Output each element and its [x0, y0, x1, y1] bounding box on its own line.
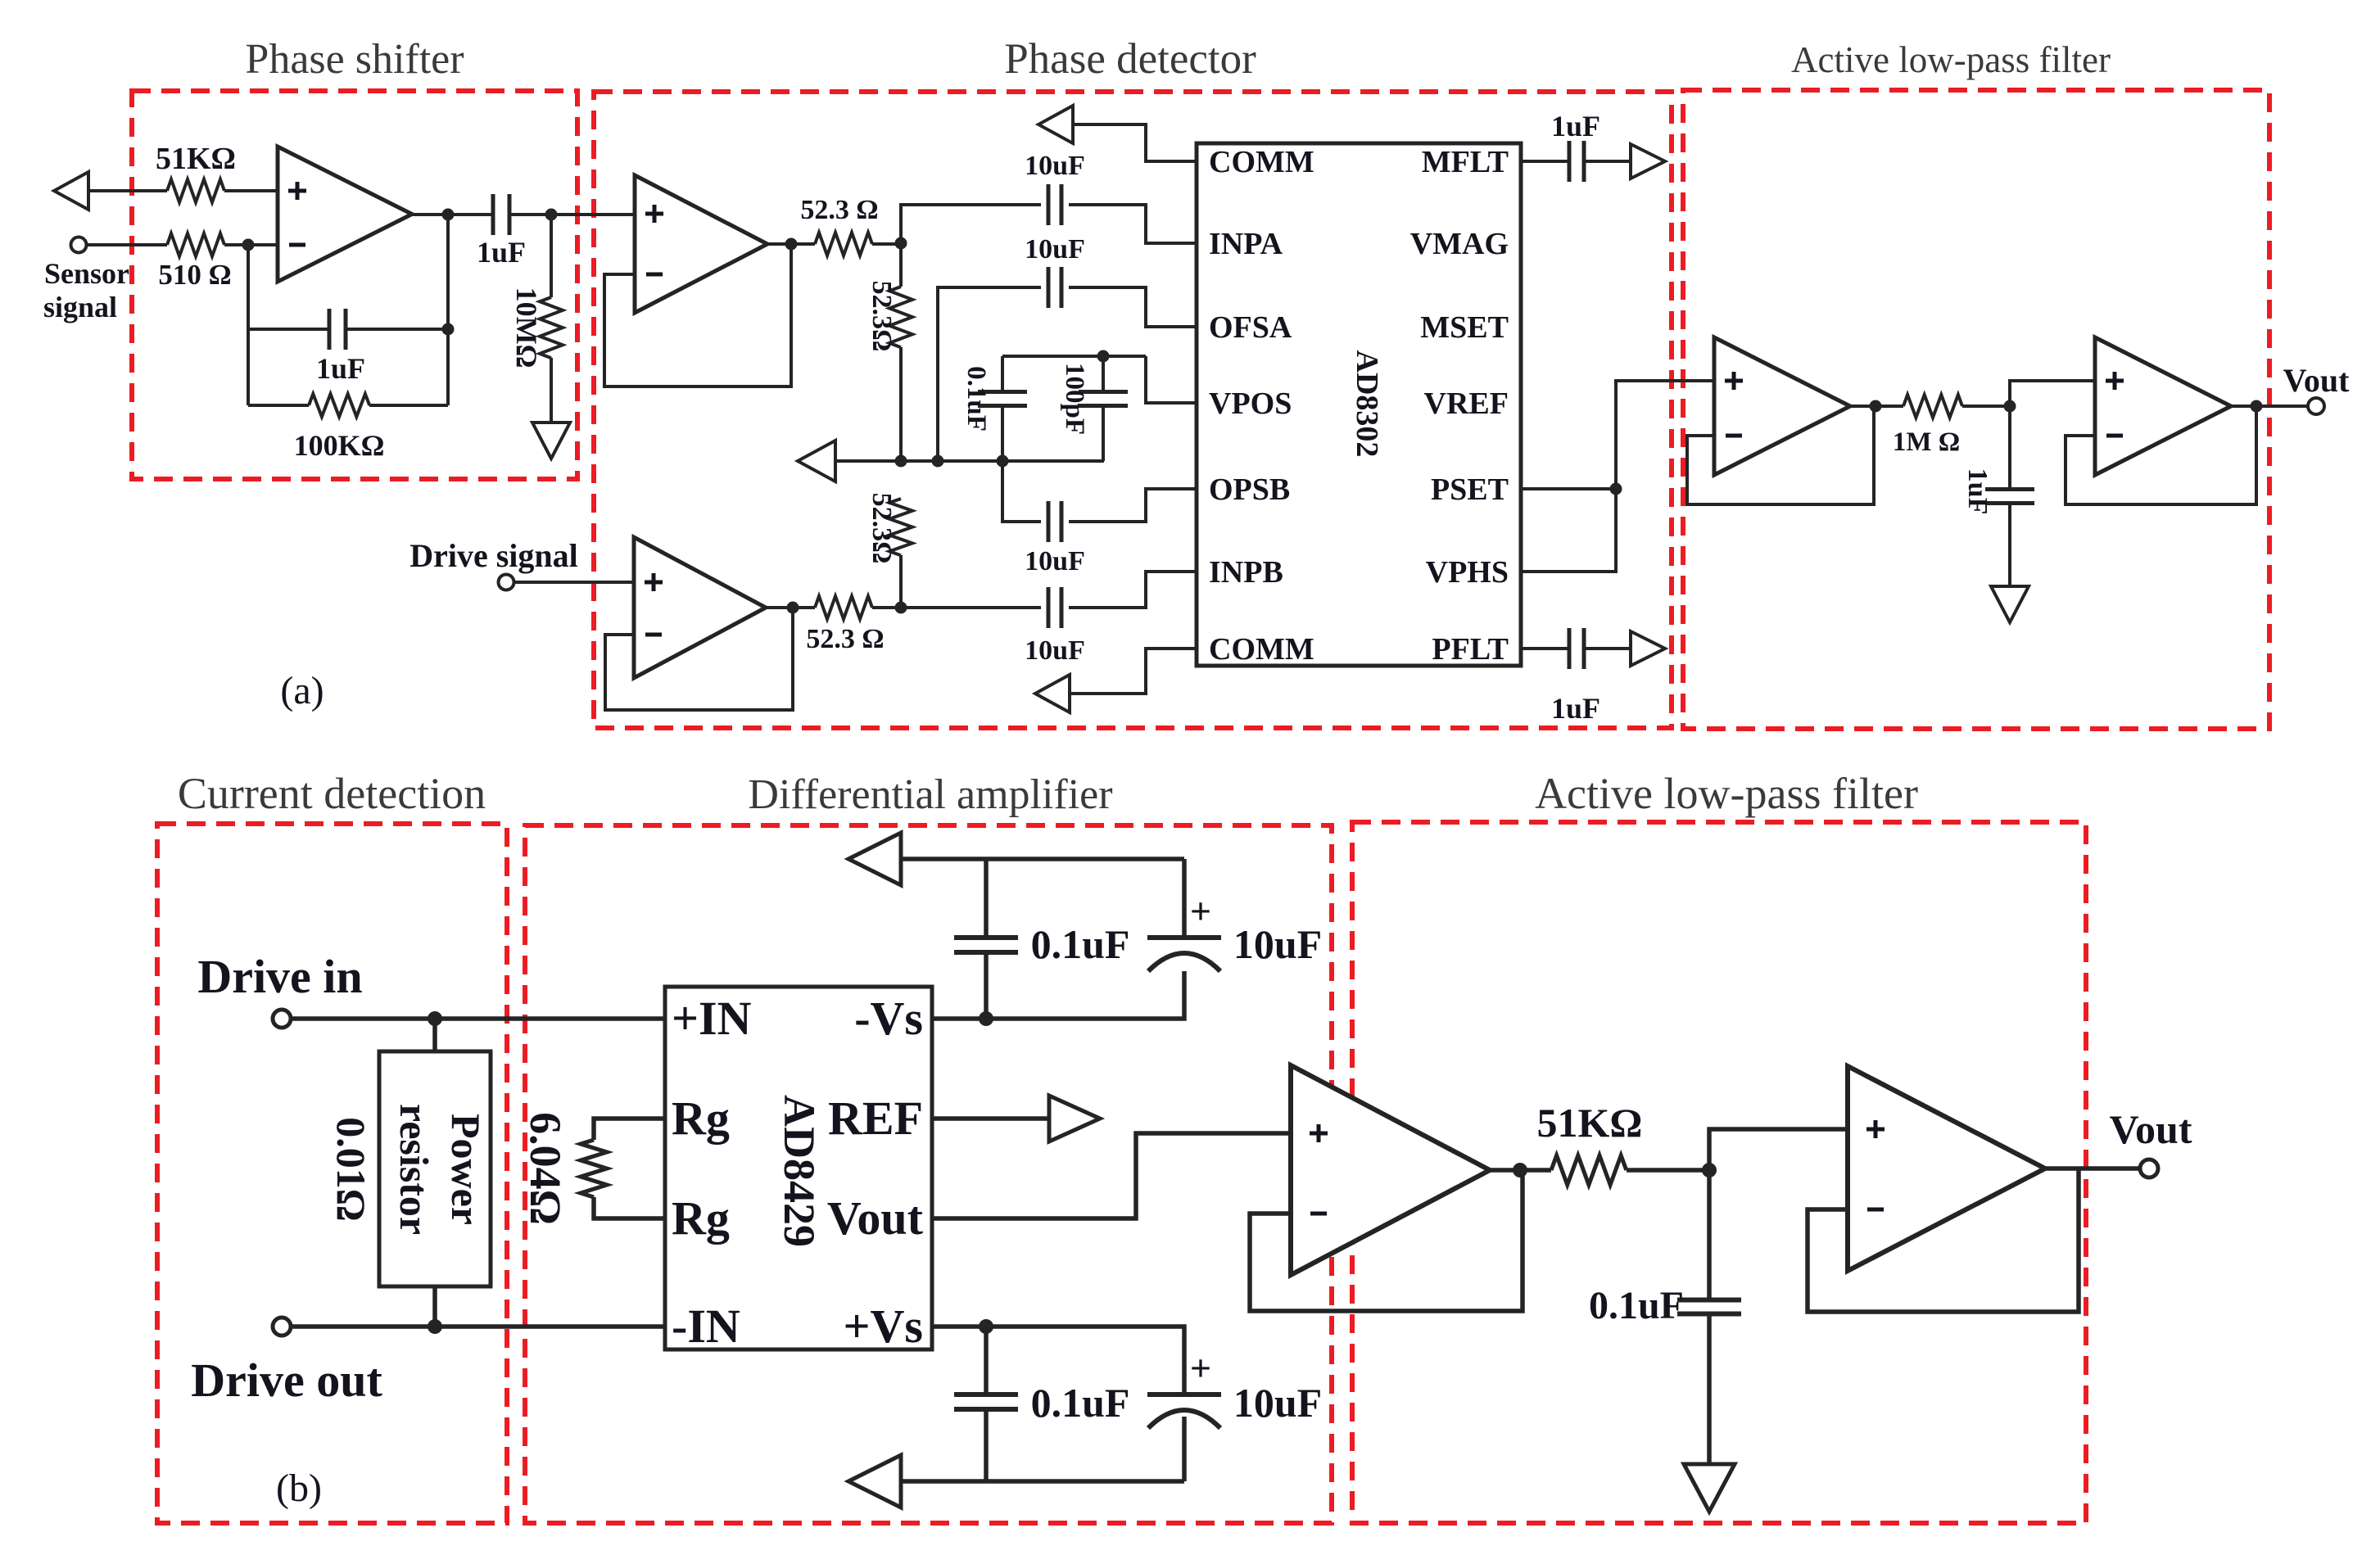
svg-text:51KΩ: 51KΩ — [156, 142, 236, 176]
terminal Vout (top) — [2308, 398, 2324, 414]
svg-text:52.3 Ω: 52.3 Ω — [806, 624, 884, 654]
svg-text:510 Ω: 510 Ω — [158, 259, 231, 291]
capacitor 0.1uF on -Vs — [984, 953, 989, 1019]
capacitor 1uF at MFLT — [1569, 141, 1584, 182]
svg-text:MSET: MSET — [1420, 310, 1509, 345]
wire top of power resistor — [432, 1019, 437, 1051]
svg-text:Vout: Vout — [2283, 362, 2350, 399]
resistor 51KO to U1 + — [167, 179, 224, 202]
capacitor 1uF series at U1 output — [493, 194, 509, 235]
op-amp U1 (phase shifter) — [278, 147, 412, 282]
svg-text:resistor: resistor — [391, 1104, 437, 1235]
svg-text:OFSA: OFSA — [1209, 310, 1292, 345]
dashed box: Active low-pass filter (top) — [1683, 90, 2269, 729]
capacitor 10uF polarized on -Vs — [1182, 859, 1187, 938]
node A vertical to INPA coupling — [901, 205, 1041, 243]
ground arrow (left) +Vs — [848, 1455, 901, 1507]
IC U3 AD8302 phase detector chip — [1197, 143, 1521, 666]
resistor 510O to U1 - — [167, 233, 224, 256]
wire U8 output — [1490, 1168, 1551, 1173]
wire to COMM top pin — [1073, 124, 1197, 161]
capacitor 10uF to OFSA — [938, 287, 1041, 461]
svg-text:0.1uF: 0.1uF — [962, 366, 991, 432]
wire U4 feedback loop — [605, 608, 793, 710]
svg-text:10uF: 10uF — [1025, 151, 1085, 181]
svg-text:1uF: 1uF — [477, 236, 526, 269]
svg-text:1uF: 1uF — [316, 352, 365, 385]
ground arrow (left) -Vs — [848, 833, 901, 885]
svg-text:Active low-pass filter: Active low-pass filter — [1535, 769, 1918, 818]
wire -Vs ground rail — [899, 857, 1184, 861]
wire node to U5 + input — [1616, 381, 1714, 489]
svg-text:VPOS: VPOS — [1209, 386, 1292, 421]
wire to VPOS pin — [1146, 356, 1197, 403]
svg-text:OPSB: OPSB — [1209, 472, 1290, 507]
resistor 10MO to ground — [550, 215, 553, 297]
svg-text:Phase shifter: Phase shifter — [245, 36, 464, 83]
capacitor 0.1uF decoupling VPOS — [1001, 407, 1004, 461]
wire Drive out to -IN — [291, 1324, 665, 1329]
terminal: Sensor signal input — [71, 237, 87, 253]
capacitor 10uF to OPSB — [1002, 461, 1041, 522]
svg-text:COMM: COMM — [1209, 632, 1314, 667]
op-amp U8 (first bottom ALPF) — [1291, 1065, 1490, 1275]
capacitor 0.1uF to ground (bottom ALPF) — [1707, 1170, 1712, 1301]
svg-text:AD8302: AD8302 — [1350, 350, 1384, 458]
svg-text:1M Ω: 1M Ω — [1893, 427, 1960, 457]
wire — [88, 189, 167, 192]
capacitor 10uF to INPB — [901, 606, 1041, 609]
dashed box: Phase shifter — [132, 91, 577, 479]
svg-text:Active low-pass filter: Active low-pass filter — [1791, 39, 2111, 80]
svg-text:Current detection: Current detection — [178, 769, 486, 818]
svg-text:+: + — [1190, 1347, 1211, 1389]
terminal: Drive signal input — [499, 575, 514, 590]
wire — [872, 242, 901, 246]
wire U1 output — [412, 213, 493, 216]
op-amp U6 (second ALPF) — [2095, 337, 2231, 475]
svg-text:10uF: 10uF — [1233, 1380, 1322, 1426]
svg-text:1uF: 1uF — [1962, 468, 1993, 515]
wire U6 output to Vout — [2231, 405, 2308, 408]
svg-text:0.1uF: 0.1uF — [1031, 921, 1130, 967]
capacitor 10uF to INPA — [1048, 184, 1061, 225]
resistor 100KO feedback of U1 — [248, 404, 309, 407]
svg-text:VPHS: VPHS — [1426, 555, 1509, 590]
wire U2 output — [767, 242, 815, 246]
resistor 52.3O shunt upper — [899, 243, 903, 287]
svg-text:6.04Ω: 6.04Ω — [521, 1112, 570, 1225]
op-amp U4 (buffer B) — [634, 537, 766, 678]
resistor 52.3O series A — [815, 233, 872, 255]
arrow out REF — [1049, 1096, 1100, 1141]
arrow out MFLT — [1631, 144, 1665, 179]
svg-text:0.1uF: 0.1uF — [1589, 1284, 1684, 1327]
wire U2 feedback loop — [604, 244, 791, 386]
resistor 51KO (bottom) — [1551, 1155, 1627, 1185]
capacitor 10uF polarized on +Vs — [1147, 1392, 1221, 1397]
svg-text:+Vs: +Vs — [843, 1300, 923, 1353]
ground arrow (left) mid rail — [798, 441, 835, 481]
svg-text:Power: Power — [443, 1114, 489, 1225]
wire U6 feedback loop — [2066, 406, 2256, 504]
capacitor 1uF feedback of U1 — [248, 328, 329, 331]
svg-text:100KΩ: 100KΩ — [294, 429, 385, 462]
wire +Vs rail — [932, 1327, 1184, 1395]
svg-text:Vout: Vout — [2110, 1106, 2192, 1152]
ground (down) bottom ALPF — [1684, 1464, 1735, 1512]
ground (down) after 10MO — [532, 423, 570, 459]
wire U9 output to Vout — [2045, 1166, 2141, 1171]
wire — [514, 581, 635, 584]
svg-text:1uF: 1uF — [1551, 110, 1600, 142]
ground arrow (left) at + input of U1 — [54, 172, 88, 210]
wire +Vs ground rail — [899, 1479, 1184, 1484]
svg-text:1uF: 1uF — [1551, 692, 1600, 725]
arrow out PFLT — [1631, 631, 1665, 666]
svg-text:Differential amplifier: Differential amplifier — [748, 771, 1112, 818]
wire — [224, 189, 278, 192]
capacitor 100pF decoupling VPOS — [1102, 356, 1105, 391]
svg-text:+: + — [1190, 890, 1211, 932]
wire -Vs rail — [932, 971, 1184, 1019]
svg-text:INPA: INPA — [1209, 227, 1283, 261]
op-amp U2 (buffer A) — [635, 175, 767, 313]
feedback network wires of U1 — [247, 245, 250, 405]
svg-text:VMAG: VMAG — [1410, 227, 1509, 261]
svg-text:(a): (a) — [280, 669, 324, 712]
svg-text:51KΩ: 51KΩ — [1537, 1100, 1643, 1146]
wire U8 feedback loop — [1250, 1170, 1523, 1311]
svg-text:AD8429: AD8429 — [775, 1095, 824, 1247]
svg-text:-IN: -IN — [672, 1300, 740, 1353]
wire REF out — [932, 1116, 1049, 1121]
wire bottom of power resistor — [432, 1286, 437, 1327]
wire node to U9 + input — [1709, 1129, 1848, 1170]
wire — [224, 243, 278, 246]
ground arrow (left) bottom COMM — [1035, 675, 1070, 712]
wire PFLT out — [1521, 647, 1570, 650]
dashed box: Active low-pass filter (bottom) — [1352, 822, 2086, 1523]
svg-text:52.3 Ω: 52.3 Ω — [800, 195, 878, 225]
ground arrow (left) top COMM — [1038, 106, 1073, 143]
wire U5 output — [1850, 405, 1903, 408]
wire — [87, 243, 167, 246]
svg-text:INPB: INPB — [1209, 555, 1283, 590]
terminal Drive in — [273, 1010, 291, 1028]
wire to COMM bottom pin — [1070, 649, 1197, 694]
svg-text:MFLT: MFLT — [1422, 145, 1509, 179]
svg-text:10uF: 10uF — [1025, 546, 1085, 576]
IC U7 AD8429 differential amplifier — [665, 987, 932, 1349]
capacitor 1uF to ground — [2008, 406, 2011, 489]
resistor 52.3O shunt lower — [889, 499, 912, 555]
wire — [509, 213, 635, 216]
wire U9 feedback loop — [1808, 1168, 2079, 1312]
terminal Drive out — [273, 1318, 291, 1336]
power resistor 0.01O (rect) — [379, 1051, 491, 1286]
svg-text:52.3Ω: 52.3Ω — [866, 281, 897, 352]
wire Vout of AD8429 to U8 + — [932, 1133, 1291, 1218]
capacitor 0.1uF on +Vs — [984, 1327, 989, 1395]
wire U4 output — [766, 606, 815, 609]
ground (down) after 1uF — [1991, 586, 2029, 622]
svg-text:0.1uF: 0.1uF — [1031, 1380, 1130, 1426]
svg-text:-Vs: -Vs — [854, 992, 923, 1045]
svg-text:PFLT: PFLT — [1432, 632, 1509, 667]
capacitor 1uF at PFLT — [1569, 628, 1584, 669]
dashed box: Current detection — [157, 824, 507, 1523]
wire ground rail — [835, 459, 1104, 463]
svg-text:REF: REF — [828, 1092, 923, 1145]
svg-text:Vout: Vout — [827, 1191, 924, 1245]
dashed box: Phase detector — [594, 92, 1672, 728]
wire PSET to node — [1521, 487, 1616, 490]
resistor 6.04O between Rg pins — [594, 1119, 665, 1140]
svg-text:+IN: +IN — [672, 992, 752, 1045]
svg-text:PSET: PSET — [1431, 472, 1509, 507]
svg-text:100pF: 100pF — [1060, 363, 1089, 435]
wire to INPA pin — [1069, 205, 1197, 243]
resistor 1MO — [1903, 395, 1962, 418]
svg-text:10uF: 10uF — [1233, 921, 1322, 967]
svg-text:signal: signal — [43, 291, 117, 323]
svg-text:Rg: Rg — [672, 1191, 730, 1245]
svg-text:10MΩ: 10MΩ — [510, 287, 543, 368]
svg-text:10uF: 10uF — [1025, 635, 1085, 666]
svg-text:10uF: 10uF — [1025, 234, 1085, 264]
svg-text:Sensor: Sensor — [44, 257, 129, 290]
terminal Vout (bottom) — [2140, 1159, 2158, 1178]
svg-text:COMM: COMM — [1209, 145, 1314, 179]
svg-text:0.01Ω: 0.01Ω — [328, 1117, 374, 1222]
svg-text:VREF: VREF — [1424, 386, 1509, 421]
wire top rail of VPOS caps — [1002, 355, 1146, 358]
svg-text:52.3Ω: 52.3Ω — [866, 493, 897, 564]
svg-text:(b): (b) — [276, 1467, 322, 1510]
wire MFLT out — [1521, 160, 1570, 163]
svg-text:Drive in: Drive in — [197, 950, 362, 1003]
wire U5 feedback loop — [1687, 406, 1874, 504]
wire Drive in to +IN — [291, 1016, 665, 1021]
resistor 52.3O series B — [815, 596, 872, 619]
op-amp U9 (second bottom ALPF) — [1848, 1066, 2045, 1271]
dashed box: Differential amplifier — [525, 825, 1332, 1523]
svg-text:Drive out: Drive out — [191, 1354, 382, 1407]
svg-text:Rg: Rg — [672, 1092, 730, 1145]
wire node to U6 + input — [2010, 381, 2095, 406]
svg-text:Drive signal: Drive signal — [409, 537, 578, 574]
op-amp U5 (first ALPF) — [1714, 337, 1850, 475]
wire VPHS to node — [1521, 489, 1616, 572]
svg-text:Phase detector: Phase detector — [1004, 35, 1256, 83]
